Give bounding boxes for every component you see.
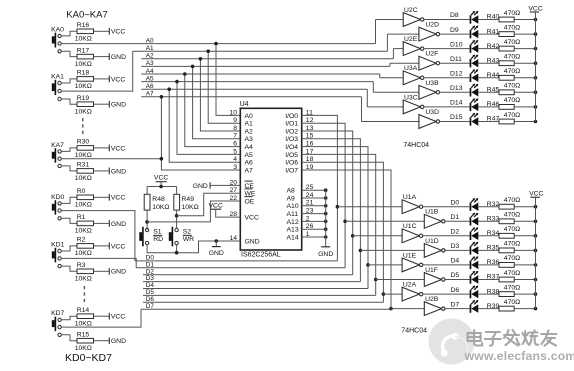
svg-text:R17: R17 (77, 47, 90, 54)
svg-text:KA7: KA7 (51, 142, 64, 149)
svg-text:I/O4: I/O4 (285, 144, 298, 151)
svg-text:A4: A4 (146, 68, 154, 75)
svg-text:470Ω: 470Ω (504, 83, 520, 90)
svg-text:U1C: U1C (403, 223, 417, 230)
svg-text:17: 17 (306, 148, 314, 155)
svg-text:GND: GND (111, 54, 126, 61)
svg-text:U3A: U3A (404, 65, 418, 72)
svg-text:D5: D5 (451, 272, 460, 279)
svg-text:U2A: U2A (403, 282, 417, 289)
svg-text:IS62C256AL: IS62C256AL (241, 251, 281, 258)
svg-text:470Ω: 470Ω (504, 112, 520, 119)
svg-text:U1D: U1D (425, 238, 439, 245)
svg-text:KA0~KA7: KA0~KA7 (66, 10, 107, 21)
svg-text:KD1: KD1 (51, 241, 64, 248)
svg-text:470Ω: 470Ω (504, 212, 520, 219)
svg-text:KA0: KA0 (51, 26, 64, 33)
svg-text:10KΩ: 10KΩ (75, 61, 92, 68)
svg-text:I/O2: I/O2 (285, 128, 298, 135)
svg-text:15: 15 (306, 133, 314, 140)
svg-text:U1B: U1B (425, 209, 439, 216)
svg-text:R48: R48 (152, 196, 165, 203)
svg-text:KD0: KD0 (51, 194, 64, 201)
svg-text:A6: A6 (146, 83, 154, 90)
svg-text:www.elecfans.com: www.elecfans.com (464, 349, 574, 363)
svg-text:7: 7 (233, 133, 237, 140)
svg-text:5: 5 (233, 148, 237, 155)
svg-text:10KΩ: 10KΩ (75, 36, 92, 43)
svg-text:RD: RD (153, 236, 163, 243)
svg-text:A0: A0 (245, 113, 254, 120)
svg-text:470Ω: 470Ω (504, 54, 520, 61)
svg-text:16: 16 (306, 141, 314, 148)
svg-text:I/O0: I/O0 (285, 113, 298, 120)
svg-text:OE: OE (245, 198, 255, 205)
svg-text:1: 1 (306, 231, 310, 238)
svg-text:470Ω: 470Ω (504, 299, 520, 306)
svg-text:GND: GND (111, 269, 126, 276)
svg-text:KD0~KD7: KD0~KD7 (65, 352, 112, 364)
svg-text:11: 11 (306, 109, 313, 116)
svg-text:10KΩ: 10KΩ (75, 83, 92, 90)
svg-text:U2B: U2B (425, 296, 439, 303)
svg-text:23: 23 (306, 208, 314, 215)
svg-text:D12: D12 (450, 71, 463, 78)
svg-text:A1: A1 (245, 121, 254, 128)
svg-text:D9: D9 (450, 27, 459, 34)
svg-text:A13: A13 (287, 227, 299, 234)
svg-text:10KΩ: 10KΩ (75, 276, 92, 283)
svg-text:GND: GND (111, 102, 126, 109)
svg-text:10KΩ: 10KΩ (75, 202, 92, 209)
svg-text:10KΩ: 10KΩ (75, 320, 92, 327)
svg-text:R31: R31 (77, 162, 90, 169)
svg-text:D4: D4 (451, 258, 460, 265)
svg-text:A12: A12 (287, 219, 299, 226)
svg-text:10KΩ: 10KΩ (75, 345, 92, 352)
svg-text:10KΩ: 10KΩ (75, 108, 92, 115)
svg-text:6: 6 (233, 141, 237, 148)
svg-text:R49: R49 (182, 196, 195, 203)
svg-text:R1: R1 (77, 214, 86, 221)
svg-text:D3: D3 (451, 243, 460, 250)
svg-text:12: 12 (306, 117, 314, 124)
svg-text:470Ω: 470Ω (504, 241, 520, 248)
svg-text:WR: WR (183, 236, 194, 243)
svg-text:U1E: U1E (403, 252, 417, 259)
svg-text:A0: A0 (146, 37, 154, 44)
svg-text:R30: R30 (77, 139, 90, 146)
svg-text:U1A: U1A (403, 194, 417, 201)
svg-text:GND: GND (111, 338, 126, 345)
svg-text:D15: D15 (450, 114, 463, 121)
svg-text:2: 2 (306, 215, 310, 222)
svg-text:GND: GND (111, 221, 126, 228)
svg-text:GND: GND (193, 183, 208, 190)
svg-text:10KΩ: 10KΩ (152, 204, 169, 211)
svg-text:10KΩ: 10KΩ (75, 152, 92, 159)
svg-text:R15: R15 (77, 331, 90, 338)
svg-text:I/O3: I/O3 (285, 136, 298, 143)
svg-text:470Ω: 470Ω (504, 284, 520, 291)
svg-text:4: 4 (233, 156, 237, 163)
svg-text:D10: D10 (450, 41, 463, 48)
svg-text:D11: D11 (450, 56, 462, 63)
svg-text:D14: D14 (450, 100, 463, 107)
svg-text:9: 9 (233, 117, 237, 124)
svg-text:VCC: VCC (111, 145, 125, 152)
svg-text:VCC: VCC (111, 243, 125, 250)
svg-text:U3C: U3C (404, 94, 418, 101)
svg-text:A3: A3 (146, 60, 154, 67)
svg-text:8: 8 (233, 125, 237, 132)
svg-text:3: 3 (233, 164, 237, 171)
svg-text:VCC: VCC (111, 195, 125, 202)
svg-text:D13: D13 (450, 85, 463, 92)
svg-text:U4: U4 (240, 101, 249, 108)
svg-text:74HC04: 74HC04 (403, 142, 429, 149)
svg-text:24: 24 (306, 192, 314, 199)
svg-text:S1: S1 (153, 228, 162, 235)
svg-text:VCC: VCC (529, 191, 543, 198)
svg-text:D0: D0 (451, 199, 460, 206)
svg-text:21: 21 (306, 200, 314, 207)
svg-text:A4: A4 (245, 144, 254, 151)
svg-text:U2F: U2F (425, 51, 438, 58)
svg-text:25: 25 (306, 184, 314, 191)
svg-text:I/O5: I/O5 (285, 152, 298, 159)
svg-text:D6: D6 (451, 287, 460, 294)
svg-text:D8: D8 (450, 12, 459, 19)
svg-text:470Ω: 470Ω (504, 226, 520, 233)
svg-text:470Ω: 470Ω (504, 24, 520, 31)
svg-text:A1: A1 (146, 45, 154, 52)
svg-text:VCC: VCC (111, 76, 125, 83)
svg-text:R3: R3 (77, 262, 86, 269)
svg-text:A2: A2 (146, 53, 154, 60)
svg-text:10KΩ: 10KΩ (75, 228, 92, 235)
svg-text:A10: A10 (287, 203, 299, 210)
svg-text:19: 19 (306, 164, 314, 171)
svg-text:I/O7: I/O7 (285, 167, 298, 174)
svg-text:R2: R2 (77, 237, 86, 244)
svg-text:A11: A11 (287, 211, 299, 218)
svg-text:R18: R18 (77, 70, 90, 77)
svg-text:I/O6: I/O6 (285, 160, 298, 167)
svg-text:R19: R19 (77, 95, 90, 102)
svg-text:10: 10 (229, 109, 237, 116)
svg-text:10KΩ: 10KΩ (75, 250, 92, 257)
svg-text:U3B: U3B (425, 80, 439, 87)
svg-text:R0: R0 (77, 188, 86, 195)
svg-text:18: 18 (306, 156, 314, 163)
svg-text:74HC04: 74HC04 (401, 328, 427, 335)
svg-text:VCC: VCC (111, 314, 125, 321)
svg-text:VCC: VCC (111, 29, 125, 36)
svg-text:GND: GND (209, 250, 224, 257)
svg-text:10KΩ: 10KΩ (75, 175, 92, 182)
svg-text:26: 26 (306, 223, 314, 230)
svg-text:S2: S2 (183, 228, 192, 235)
svg-text:470Ω: 470Ω (504, 68, 520, 75)
svg-text:GND: GND (318, 251, 333, 258)
svg-text:U2D: U2D (425, 22, 439, 29)
svg-text:A14: A14 (287, 234, 299, 241)
svg-text:470Ω: 470Ω (504, 270, 520, 277)
svg-text:KD7: KD7 (51, 310, 64, 317)
svg-text:VCC: VCC (209, 202, 223, 209)
svg-text:A9: A9 (287, 195, 296, 202)
svg-text:D7: D7 (451, 301, 460, 308)
svg-text:D7: D7 (146, 303, 155, 310)
svg-text:10KΩ: 10KΩ (182, 204, 199, 211)
svg-text:A7: A7 (146, 91, 154, 98)
svg-text:GND: GND (245, 238, 260, 245)
svg-text:470Ω: 470Ω (504, 39, 520, 46)
svg-text:R16: R16 (77, 22, 90, 29)
svg-text:470Ω: 470Ω (504, 10, 520, 17)
svg-text:A6: A6 (245, 160, 254, 167)
svg-text:U1F: U1F (425, 267, 438, 274)
svg-text:A5: A5 (146, 75, 154, 82)
svg-text:U2E: U2E (404, 36, 418, 43)
svg-text:470Ω: 470Ω (504, 197, 520, 204)
svg-text:KA1: KA1 (51, 73, 64, 80)
svg-text:A7: A7 (245, 167, 254, 174)
svg-text:VCC: VCC (245, 215, 259, 222)
svg-text:A8: A8 (287, 188, 296, 195)
svg-text:A2: A2 (245, 128, 254, 135)
svg-text:U3D: U3D (425, 109, 439, 116)
svg-text:I/O1: I/O1 (285, 121, 298, 128)
svg-text:D1: D1 (451, 214, 460, 221)
svg-text:A5: A5 (245, 152, 254, 159)
svg-text:13: 13 (306, 125, 314, 132)
svg-text:U2C: U2C (404, 7, 418, 14)
svg-text:VCC: VCC (154, 174, 168, 181)
svg-text:A3: A3 (245, 136, 254, 143)
svg-text:GND: GND (111, 168, 126, 175)
svg-text:R14: R14 (77, 307, 90, 314)
svg-text:470Ω: 470Ω (504, 97, 520, 104)
svg-text:D2: D2 (451, 229, 460, 236)
svg-text:470Ω: 470Ω (504, 255, 520, 262)
